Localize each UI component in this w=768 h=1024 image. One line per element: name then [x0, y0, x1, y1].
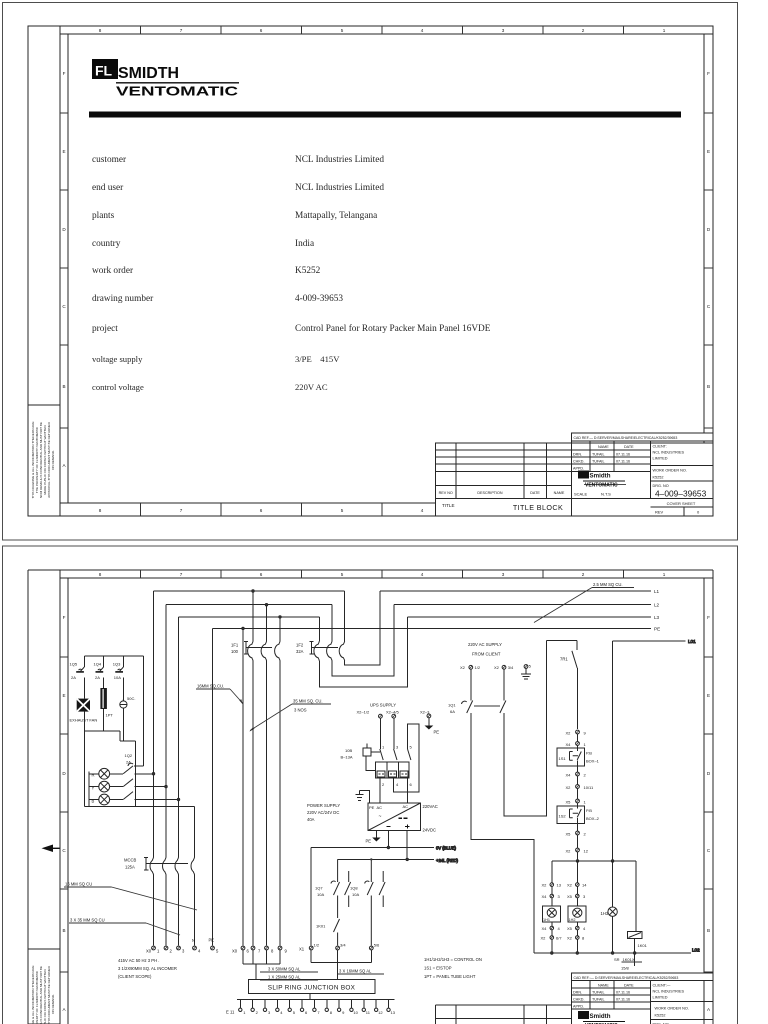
- svg-text:1: 1: [663, 28, 666, 33]
- svg-text:SR: SR: [614, 957, 620, 962]
- label 16 MM SQ CU: [64, 882, 197, 911]
- svg-text:Control Panel for Rotary Packe: Control Panel for Rotary Packer Main Pan…: [295, 323, 491, 334]
- svg-text:X4: X4: [542, 894, 548, 899]
- svg-text:7R1: 7R1: [560, 657, 568, 662]
- svg-text:8: 8: [99, 28, 102, 33]
- svg-text:6: 6: [260, 508, 263, 513]
- ground PE at X2-3: [425, 718, 440, 735]
- legend notes: [424, 957, 482, 979]
- FLSmidth Ventomatic logo: [92, 59, 239, 99]
- svg-text:1/2: 1/2: [314, 943, 320, 948]
- svg-text:6A: 6A: [450, 709, 455, 714]
- slip ring junction box: [249, 980, 376, 994]
- relay coil 1K01: [628, 861, 648, 966]
- svg-text:6: 6: [260, 28, 263, 33]
- svg-text:1H1: 1H1: [543, 918, 550, 922]
- label 220V AC SUPPLY FROM CLIENT: [468, 642, 502, 657]
- wire lamp left bus: [89, 772, 99, 807]
- svg-text:3/PE 415V: 3/PE 415V: [295, 354, 340, 364]
- svg-text:X4: X4: [566, 742, 572, 747]
- ruler ticks page 1: [60, 26, 713, 516]
- svg-text:07.11.16: 07.11.16: [616, 991, 630, 995]
- svg-text:X4: X4: [542, 926, 548, 931]
- svg-text:3 X 50MM SQ AL: 3 X 50MM SQ AL: [268, 967, 301, 972]
- svg-text:B: B: [707, 928, 710, 933]
- svg-text:SMIDTH: SMIDTH: [118, 65, 179, 82]
- svg-text:E: E: [62, 693, 65, 698]
- svg-text:1H3: 1H3: [601, 911, 609, 916]
- svg-text:5/6: 5/6: [374, 943, 380, 948]
- pushbutton 1S1 P.B BOX-1: [557, 748, 600, 766]
- svg-text:plants: plants: [92, 211, 115, 221]
- wire aux left return: [83, 731, 85, 807]
- terminal E11-1..13: [239, 999, 396, 1015]
- svg-text:1Q5: 1Q5: [70, 662, 78, 667]
- wire X2-1/2 to pin1: [379, 718, 381, 749]
- svg-text:125A: 125A: [125, 865, 135, 870]
- svg-text:DATE: DATE: [624, 445, 634, 449]
- svg-text:UPS SUPPLY: UPS SUPPLY: [370, 703, 396, 708]
- svg-text:BOX–2: BOX–2: [586, 816, 600, 821]
- svg-text:3/4: 3/4: [508, 665, 514, 670]
- svg-text:NCL INDUSTRIES: NCL INDUSTRIES: [653, 990, 685, 994]
- label 1 X 25MM SQ AL: [260, 975, 318, 981]
- svg-text:14: 14: [582, 883, 587, 888]
- svg-text:4: 4: [421, 508, 424, 513]
- confidentiality note box page 1: [28, 405, 60, 516]
- lamp branch 1H1: [541, 861, 563, 953]
- wire 1F1 pole3: [279, 616, 281, 946]
- svg-text:F: F: [63, 71, 66, 76]
- svg-text:VENTOMATIC: VENTOMATIC: [116, 84, 239, 99]
- terminal X2-12: [566, 848, 589, 861]
- svg-text:5: 5: [341, 508, 344, 513]
- svg-text:X0: X0: [232, 949, 238, 954]
- wire 1F1 pole2: [265, 604, 267, 946]
- svg-text:1Q1: 1Q1: [448, 703, 456, 708]
- svg-text:TITLE: TITLE: [442, 503, 455, 508]
- svg-text:X2: X2: [567, 883, 573, 888]
- svg-text:1Q4: 1Q4: [94, 662, 102, 667]
- svg-text:X5: X5: [566, 800, 572, 805]
- svg-text:L1: L1: [654, 589, 660, 594]
- svg-text:B: B: [62, 384, 65, 389]
- label UPS SUPPLY: [370, 703, 396, 708]
- breaker 1F2: [296, 641, 345, 661]
- svg-text:5: 5: [341, 28, 344, 33]
- svg-text:3 NOS: 3 NOS: [294, 708, 307, 713]
- wire 0V line: [311, 831, 456, 851]
- svg-text:TITLE BLOCK: TITLE BLOCK: [513, 503, 563, 512]
- svg-text:1Q2: 1Q2: [125, 753, 133, 758]
- svg-text:F: F: [707, 615, 710, 620]
- wire 7R1 bracket: [546, 641, 577, 651]
- svg-text:40A: 40A: [307, 817, 315, 822]
- svg-text:8: 8: [99, 508, 102, 513]
- label 3 X 50MM SQ AL: [260, 967, 318, 973]
- ruler numbers page 1: [62, 28, 711, 513]
- svg-text:32A: 32A: [296, 649, 304, 654]
- svg-text:X5: X5: [566, 832, 572, 837]
- rev header row: [439, 491, 565, 495]
- socket 50C: [120, 678, 136, 742]
- svg-text:K5252: K5252: [655, 1014, 666, 1018]
- wire L3 bus: [179, 617, 652, 687]
- terminal strip X0 6-9: [232, 946, 288, 953]
- svg-text:DATE: DATE: [530, 491, 540, 495]
- svg-text:12: 12: [378, 1010, 383, 1015]
- svg-text:WORK ORDER NO.: WORK ORDER NO.: [655, 1007, 689, 1011]
- svg-text:voltage supply: voltage supply: [92, 354, 143, 364]
- terminal X2-9: [566, 730, 587, 742]
- svg-text:100: 100: [231, 649, 239, 654]
- breaker 1Q5: [70, 656, 85, 680]
- svg-text:TUFAIL: TUFAIL: [592, 998, 605, 1002]
- svg-text:415V AC 50 Hz 3 PH .: 415V AC 50 Hz 3 PH .: [118, 958, 159, 963]
- svg-text:35 MM SQ. CU.: 35 MM SQ. CU.: [293, 699, 323, 704]
- breaker 1Q8: [350, 858, 385, 945]
- svg-text:4: 4: [421, 572, 424, 577]
- svg-text:13: 13: [391, 1010, 396, 1015]
- wire 1Q1 pole2 to 7R1: [504, 641, 546, 816]
- svg-text:1/2: 1/2: [475, 665, 481, 670]
- wire PE to X0-5: [212, 628, 214, 945]
- terminal 5 with ground: [521, 664, 532, 680]
- svg-text:X2–1/2: X2–1/2: [357, 710, 370, 715]
- svg-text:BOX–1: BOX–1: [586, 759, 600, 764]
- svg-text:CHKD.: CHKD.: [573, 460, 584, 464]
- info table: [92, 155, 491, 392]
- svg-text:07.11.16: 07.11.16: [616, 998, 630, 1002]
- svg-text:2.5 MM SQ CU.: 2.5 MM SQ CU.: [593, 582, 623, 587]
- breaker 10B B-13A: [341, 744, 380, 771]
- lamp B: [92, 794, 110, 805]
- wire 1Q1 pole1 to lamp return: [471, 713, 534, 953]
- client cell: [653, 445, 685, 461]
- wire L2 bus: [166, 605, 651, 676]
- svg-text:07.11.16: 07.11.16: [616, 453, 630, 457]
- svg-text:X2: X2: [460, 665, 466, 670]
- svg-text:NCL Industries Limited: NCL Industries Limited: [295, 183, 384, 193]
- terminal strip E11: [226, 994, 395, 1015]
- label POWER SUPPLY: [307, 803, 340, 822]
- wire L3 drop: [178, 617, 180, 857]
- svg-text:1PT: 1PT: [106, 713, 114, 718]
- svg-text:customer: customer: [92, 155, 127, 165]
- svg-text:1K01X: 1K01X: [623, 957, 635, 962]
- svg-text:B: B: [62, 928, 65, 933]
- terminal X2-3: [420, 710, 431, 718]
- title block page 1: [436, 433, 714, 516]
- wire pin4 series jog pin5: [394, 724, 419, 792]
- wire pin6 to PS: [407, 778, 409, 803]
- switch 1Q2 poles: [110, 766, 180, 801]
- svg-text:AC: AC: [403, 804, 409, 809]
- svg-text:drawing number: drawing number: [92, 294, 154, 304]
- svg-text:PE: PE: [654, 627, 660, 632]
- svg-text:MCCB: MCCB: [124, 858, 137, 863]
- svg-text:REV: REV: [655, 510, 664, 515]
- svg-text:2A: 2A: [95, 675, 100, 680]
- svg-text:3: 3: [502, 28, 505, 33]
- svg-text:SCALE: SCALE: [574, 492, 587, 497]
- svg-text:7: 7: [180, 28, 183, 33]
- label incomer: [118, 958, 177, 979]
- svg-text:DRN.: DRN.: [573, 453, 582, 457]
- svg-text:3 X 16MM SQ AL: 3 X 16MM SQ AL: [339, 969, 372, 974]
- svg-text:10/11: 10/11: [584, 785, 594, 790]
- svg-text:PE: PE: [434, 730, 440, 735]
- svg-text:16MM SQ.CU.: 16MM SQ.CU.: [197, 684, 224, 689]
- svg-text:4–009–39653: 4–009–39653: [655, 489, 707, 499]
- wire 0V to X1-1/2: [310, 848, 312, 946]
- label 2.5 MM SQ CU: [534, 582, 634, 623]
- svg-text:PE: PE: [366, 839, 372, 844]
- label 35 MM SQ. CU. 3 NOS: [249, 699, 331, 732]
- breaker MCCB 125A: [124, 857, 195, 946]
- wire L01 drop to lamp bus: [612, 641, 614, 861]
- svg-text:project: project: [92, 324, 118, 334]
- ruler ticks page 2: [60, 570, 713, 972]
- mini logo page 2: [578, 1011, 589, 1019]
- svg-text:K5252: K5252: [295, 266, 321, 276]
- svg-text:10A: 10A: [352, 892, 359, 897]
- page 1 sheet: [3, 3, 738, 541]
- svg-text:E 11: E 11: [226, 1010, 235, 1015]
- drawing frame page 1: [28, 26, 713, 516]
- svg-text:REV NO: REV NO: [439, 491, 453, 495]
- svg-text:X2–4/5: X2–4/5: [386, 710, 399, 715]
- svg-text:CHKD.: CHKD.: [573, 998, 584, 1002]
- svg-text:APPD.: APPD.: [573, 467, 584, 471]
- wire X2-4/5 to pin3: [393, 718, 395, 749]
- terminal X2 3/4: [494, 665, 514, 670]
- power supply unit: [368, 803, 438, 833]
- ground PS left PE: [356, 791, 370, 803]
- svg-text:(CLIENT SCOPE): (CLIENT SCOPE): [118, 974, 152, 979]
- svg-text:X4: X4: [566, 773, 572, 778]
- svg-text:10A: 10A: [114, 675, 121, 680]
- svg-text:1Q7: 1Q7: [315, 886, 323, 891]
- terminal X2 1/2: [460, 665, 481, 670]
- label 3 X 35 MM SQ CU: [69, 918, 180, 936]
- svg-text:220V AC/24V DC: 220V AC/24V DC: [307, 810, 339, 815]
- svg-text:DATE: DATE: [624, 984, 634, 988]
- lamp 1H3: [601, 861, 618, 953]
- svg-text:220V AC: 220V AC: [295, 382, 328, 392]
- breaker 1Q4: [94, 656, 104, 680]
- svg-text:220VAC: 220VAC: [423, 804, 438, 809]
- svg-text:2: 2: [582, 572, 585, 577]
- breaker 1Q1: [448, 701, 506, 715]
- svg-text:07.11.16: 07.11.16: [616, 460, 630, 464]
- svg-text:EXHAUST FAN: EXHAUST FAN: [70, 718, 98, 723]
- svg-text:F: F: [707, 71, 710, 76]
- wire lamp top bus: [552, 860, 636, 862]
- svg-text:X2: X2: [494, 665, 500, 670]
- svg-text:ON DEMAND.: ON DEMAND.: [51, 450, 55, 470]
- exhaust fan icon: [70, 678, 98, 732]
- svg-text:X2: X2: [567, 936, 573, 941]
- svg-text:FROM CLIENT: FROM CLIENT: [472, 652, 501, 657]
- terminal X2-4/5: [386, 710, 399, 719]
- contact 1K01: [316, 919, 340, 946]
- svg-text:control voltage: control voltage: [92, 382, 144, 392]
- svg-text:end user: end user: [92, 183, 124, 193]
- wire neutral rail: [84, 806, 194, 808]
- terminal strip X0 1-5: [146, 938, 219, 954]
- svg-text:E: E: [707, 693, 710, 698]
- svg-text:X5: X5: [567, 926, 573, 931]
- svg-text:VENTOMATIC: VENTOMATIC: [585, 483, 618, 489]
- svg-text:F: F: [63, 615, 66, 620]
- wire L1 bus: [154, 591, 652, 665]
- panel tube 1PT: [100, 678, 113, 732]
- lamp Y: [92, 781, 110, 792]
- svg-text:10A: 10A: [317, 892, 324, 897]
- svg-text:TUFAIL: TUFAIL: [592, 460, 605, 464]
- svg-text:3/4: 3/4: [340, 943, 346, 948]
- svg-text:WORK ORDER NO.: WORK ORDER NO.: [653, 469, 687, 473]
- svg-text:8: 8: [99, 572, 102, 577]
- svg-text:X2: X2: [566, 785, 572, 790]
- svg-text:L2: L2: [654, 603, 660, 608]
- svg-text:Smidth: Smidth: [590, 473, 611, 480]
- svg-text:Smidth: Smidth: [590, 1013, 611, 1020]
- svg-text:X0: X0: [146, 949, 152, 954]
- breaker 1Q7: [315, 859, 351, 918]
- svg-text:1PT = PANEL TUBE LIGHT: 1PT = PANEL TUBE LIGHT: [424, 974, 476, 979]
- svg-text:APPD.: APPD.: [573, 1005, 584, 1009]
- svg-text:1F2: 1F2: [296, 643, 304, 648]
- svg-text:LIMITED: LIMITED: [653, 457, 668, 461]
- wire X0 group to junction box: [243, 950, 280, 980]
- drawing frame page 2: [28, 570, 713, 1024]
- wire L2 drop: [165, 605, 167, 857]
- svg-text:NAME: NAME: [598, 984, 609, 988]
- terminal X4-2: [566, 766, 587, 785]
- wire X1 group to junction box: [311, 950, 371, 980]
- svg-text:10: 10: [353, 1010, 358, 1015]
- svg-text:TUFAIL: TUFAIL: [592, 453, 605, 457]
- MCB 3P block: [376, 745, 413, 788]
- rail labels L1 L2 L3 PE: [654, 589, 660, 632]
- svg-text:X2: X2: [566, 731, 572, 736]
- svg-text:L02: L02: [692, 948, 700, 953]
- terminal strip X1: [299, 943, 380, 952]
- wire PE bus: [213, 627, 652, 629]
- svg-text:X1: X1: [299, 947, 305, 952]
- svg-text:0V (BLUE): 0V (BLUE): [436, 846, 457, 851]
- wire pin2 to PS: [379, 778, 381, 803]
- svg-text:AC: AC: [377, 805, 383, 810]
- svg-text:DESCRIPTION: DESCRIPTION: [477, 491, 503, 495]
- svg-text:6: 6: [260, 572, 263, 577]
- svg-text:3 X 35 MM SQ CU: 3 X 35 MM SQ CU: [70, 918, 105, 923]
- svg-text:1: 1: [663, 572, 666, 577]
- svg-text:3 1/2X90MM SQ. AL INCOMER: 3 1/2X90MM SQ. AL INCOMER: [118, 966, 177, 971]
- svg-text:K5252: K5252: [653, 476, 664, 480]
- svg-text:1S1: 1S1: [559, 756, 567, 761]
- svg-text:4: 4: [421, 28, 424, 33]
- svg-text:DRN.: DRN.: [573, 991, 582, 995]
- svg-text:P.B: P.B: [586, 751, 592, 756]
- svg-text:Mattapally, Telangana: Mattapally, Telangana: [295, 211, 377, 221]
- svg-text:work order: work order: [92, 266, 134, 276]
- svg-text:+24L (RED): +24L (RED): [436, 858, 459, 863]
- rev table page 2: [436, 1004, 572, 1006]
- svg-text:E: E: [62, 149, 65, 154]
- svg-text:COVER SHEET: COVER SHEET: [667, 501, 696, 506]
- svg-text:PE: PE: [209, 938, 215, 943]
- ground PS bottom PE: [366, 831, 381, 844]
- wire N drop: [194, 807, 196, 857]
- contact 7R1: [560, 651, 578, 729]
- svg-text:6/7: 6/7: [556, 936, 562, 941]
- ruler numbers page 2: [62, 572, 711, 1012]
- svg-text:220V AC SUPPLY: 220V AC SUPPLY: [468, 642, 502, 647]
- pushbutton 1S2 P.B BOX-2: [557, 806, 600, 824]
- svg-text:1K01: 1K01: [316, 924, 326, 929]
- svg-text:NAME: NAME: [598, 445, 609, 449]
- svg-text:L3: L3: [654, 615, 660, 620]
- svg-text:NAME: NAME: [554, 491, 565, 495]
- svg-text:India: India: [295, 239, 314, 249]
- wire +24L line: [338, 831, 459, 863]
- lamp branch 1H2: [567, 861, 587, 953]
- svg-text:15/8: 15/8: [621, 966, 630, 971]
- svg-text:2: 2: [582, 28, 585, 33]
- page 2 sheet: [3, 546, 738, 1024]
- svg-text:X2: X2: [542, 883, 548, 888]
- svg-text:1Q8: 1Q8: [350, 886, 358, 891]
- wire 1F1 pole1: [252, 590, 254, 946]
- svg-text:24VDC: 24VDC: [423, 828, 437, 833]
- svg-text:NCL INDUSTRIES: NCL INDUSTRIES: [653, 451, 685, 455]
- svg-text:PE: PE: [369, 805, 375, 810]
- svg-text:X2: X2: [566, 849, 572, 854]
- svg-text:TUFAIL: TUFAIL: [592, 991, 605, 995]
- svg-text:country: country: [92, 239, 121, 249]
- svg-text:1S1 = E/STOP: 1S1 = E/STOP: [424, 966, 452, 971]
- wire aux bottom rail: [84, 731, 135, 807]
- title block page 2: [436, 973, 714, 1024]
- svg-text:CLIENT:—: CLIENT:—: [653, 984, 671, 988]
- svg-text:2A: 2A: [71, 675, 76, 680]
- svg-text:LIMITED: LIMITED: [653, 996, 668, 1000]
- thick divider bar: [89, 112, 681, 118]
- svg-text:3: 3: [502, 572, 505, 577]
- lamp R: [92, 768, 110, 779]
- svg-text:SLIP RING JUNCTION BOX: SLIP RING JUNCTION BOX: [268, 985, 356, 992]
- svg-text:7: 7: [180, 572, 183, 577]
- wire aux top rail: [84, 655, 143, 657]
- crossref SR 1K01X: [614, 957, 642, 971]
- terminal X5-2: [566, 824, 587, 849]
- terminal X4-1: [566, 742, 587, 748]
- mini logo: [578, 471, 589, 479]
- svg-text:5: 5: [341, 572, 344, 577]
- breaker 1Q2: [125, 656, 144, 766]
- svg-text:1H2: 1H2: [569, 918, 576, 922]
- svg-text:CLIENT:: CLIENT:: [653, 445, 667, 449]
- svg-text:1K01: 1K01: [638, 943, 648, 948]
- svg-text:1 X 25MM SQ AL: 1 X 25MM SQ AL: [268, 975, 301, 980]
- terminal X2-1/2: [357, 710, 383, 719]
- svg-text:12: 12: [584, 849, 589, 854]
- svg-text:N: N: [192, 938, 195, 943]
- svg-text:E: E: [707, 149, 710, 154]
